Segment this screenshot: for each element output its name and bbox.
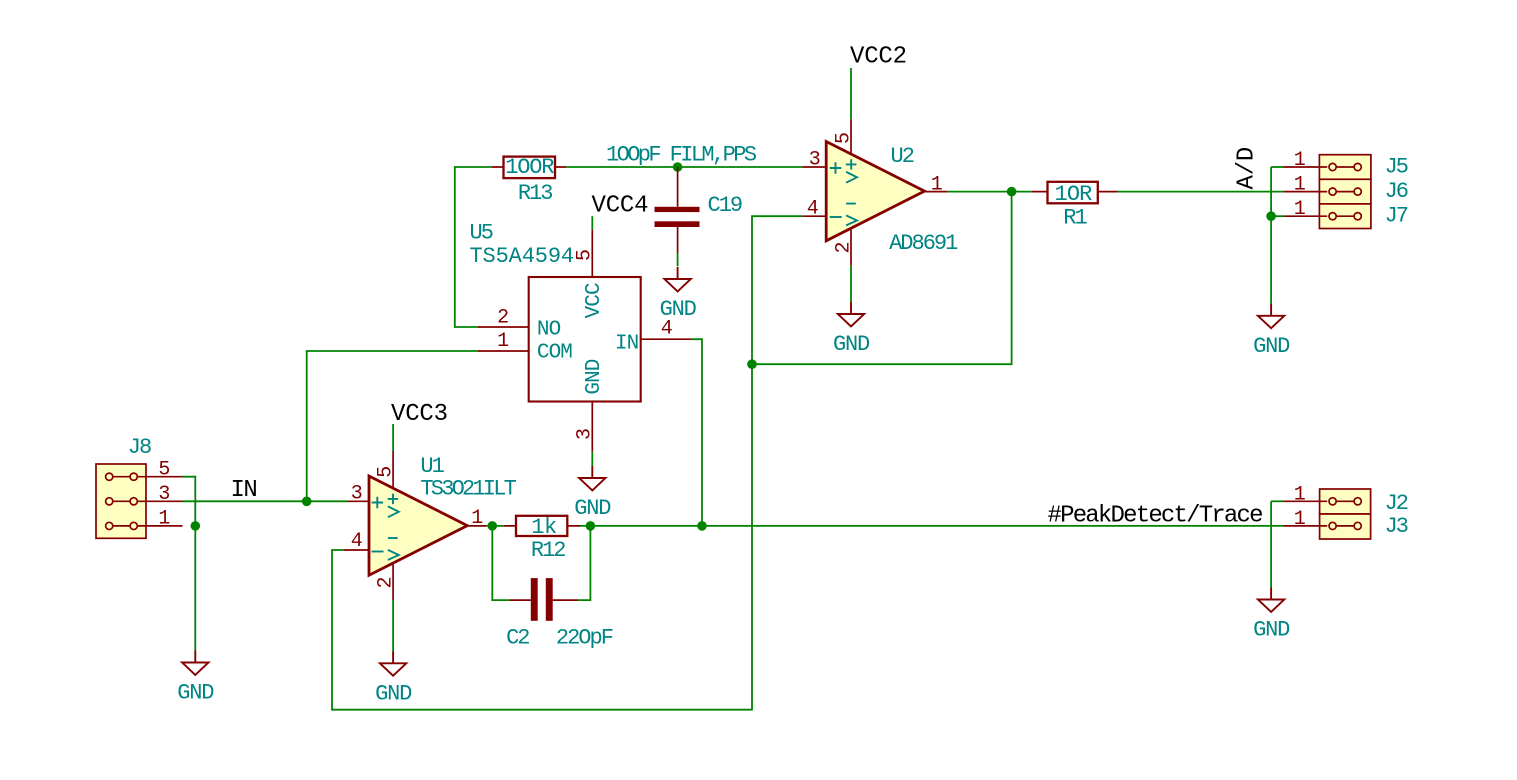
ground under J8 (182, 651, 208, 675)
resistor R12 (516, 516, 567, 536)
connector J3 (1320, 514, 1371, 539)
svg-text:1: 1 (1294, 483, 1306, 506)
J8 pin 1 circle pair (106, 522, 113, 529)
U2 pin stubs (802, 119, 947, 265)
U2 pin name minus (830, 216, 842, 218)
wire U5 NO to R13 left (455, 167, 492, 327)
svg-text:U1: U1 (420, 454, 444, 479)
svg-text:GND: GND (833, 332, 870, 357)
svg-text:3: 3 (809, 149, 820, 172)
svg-text:2: 2 (375, 578, 398, 589)
wire U5 GND pin to ground (591, 452, 593, 466)
wire to J7 pin (1271, 215, 1283, 217)
J8 pin stubs (137, 477, 182, 526)
R12 pin stubs (504, 525, 580, 527)
wire corner to J2 pin (1271, 500, 1283, 502)
U5 pin stubs (478, 230, 691, 452)
connector J8 (96, 464, 146, 538)
wire U2 output to R1 (947, 191, 1031, 193)
wire R12 right to J3 PeakDetect net (580, 525, 1284, 527)
analog switch U5 TS5A4594 (529, 277, 641, 402)
J8 pin 5 circle pair (106, 473, 113, 480)
junction U5 IN net (697, 521, 707, 531)
ground under J2 (1258, 588, 1284, 612)
svg-text:VCC3: VCC3 (391, 401, 448, 428)
svg-text:1: 1 (931, 174, 943, 197)
wire VCC4 to U5 VCC (591, 216, 593, 229)
wire U5 IN pin down to output net (691, 339, 702, 526)
connector J6 (1319, 179, 1371, 204)
svg-text:5: 5 (832, 133, 855, 144)
wire U2 output feedback down (752, 192, 1012, 365)
svg-text:4: 4 (807, 198, 818, 221)
wire feedback to U2 pin4 (752, 216, 802, 364)
svg-text:U2: U2 (891, 144, 914, 169)
U2 pin name V+ (846, 159, 857, 183)
capacitor C2 (531, 578, 538, 621)
svg-text:COM: COM (537, 342, 572, 365)
svg-text:C19: C19 (708, 193, 742, 218)
wire C2 right up to R12 right (578, 526, 590, 600)
C2 pin stubs (510, 599, 578, 601)
svg-text:NO: NO (537, 319, 561, 342)
U1 pin name V- (388, 538, 399, 560)
R13 pin stubs (492, 166, 566, 168)
wire VCC3 to U1 pin5 (392, 424, 394, 451)
ground under C19 (664, 267, 690, 291)
ground under J7 (1258, 304, 1284, 328)
wire VCC2 to U2 pin5 (850, 68, 852, 119)
wire corner to J5 pin (1271, 166, 1283, 168)
svg-text:GND: GND (177, 681, 214, 706)
svg-text:GND: GND (660, 297, 697, 322)
svg-text:3: 3 (158, 483, 169, 506)
U1 pin name plus (372, 497, 384, 509)
svg-text:GND: GND (1253, 334, 1290, 359)
svg-text:3: 3 (574, 429, 597, 440)
svg-text:J3: J3 (1385, 514, 1408, 539)
svg-text:1: 1 (497, 330, 509, 353)
junction row A C19 (673, 162, 683, 172)
U2 pin name plus (830, 162, 842, 174)
ground under U1 (380, 651, 406, 675)
svg-text:1OOpF FILM,PPS: 1OOpF FILM,PPS (606, 143, 757, 168)
op-amp U1 TS3021ILT (369, 476, 467, 575)
svg-text:5: 5 (574, 250, 597, 261)
C19 pin stubs (677, 167, 679, 253)
J5 J6 J7 pin stubs (1284, 167, 1328, 216)
U2 pin name V- (846, 204, 857, 226)
junction J7 gnd (1266, 211, 1276, 221)
capacitor C19 (655, 207, 700, 212)
ground under U2 (838, 302, 864, 326)
wire U2 pin2 to ground (850, 265, 852, 302)
svg-text:5: 5 (374, 467, 397, 478)
svg-text:J8: J8 (128, 435, 151, 460)
connector J2 (1320, 489, 1371, 514)
svg-text:1: 1 (1294, 149, 1306, 172)
svg-text:IN: IN (231, 477, 257, 504)
ground under U5 (579, 466, 605, 490)
wire C19 to ground (677, 253, 679, 266)
svg-text:IN: IN (615, 332, 638, 355)
connector J7 (1319, 204, 1371, 229)
svg-text:VCC: VCC (583, 283, 606, 318)
wire IN net J8 pin3 to U1 pin3 (183, 500, 348, 502)
svg-text:1: 1 (471, 507, 483, 530)
svg-text:3: 3 (351, 482, 362, 505)
wire U1 output to R12 (487, 525, 504, 527)
svg-text:1: 1 (1294, 508, 1306, 531)
svg-text:4: 4 (351, 530, 362, 553)
svg-text:AD8691: AD8691 (889, 231, 958, 256)
wire IN net up to U5 COM (307, 351, 478, 501)
svg-text:5: 5 (158, 459, 169, 482)
svg-text:1: 1 (158, 508, 170, 531)
svg-text:1OR: 1OR (1055, 182, 1093, 207)
svg-text:J7: J7 (1385, 204, 1408, 229)
wire J8 pin5 to GND net (183, 477, 196, 651)
resistor R13 (504, 157, 556, 179)
svg-text:GND: GND (375, 681, 412, 706)
svg-text:1: 1 (1294, 198, 1306, 221)
junction node IN (302, 497, 312, 507)
junction J8 pin1 gnd (191, 521, 201, 531)
connector J5 (1319, 155, 1371, 180)
svg-text:GND: GND (1253, 618, 1290, 643)
wire A-D connector vertical J5 J7 to ground (1270, 167, 1272, 304)
svg-text:R1: R1 (1063, 206, 1087, 231)
junction R12 right (586, 521, 596, 531)
svg-text:VCC2: VCC2 (850, 43, 907, 70)
svg-text:R13: R13 (518, 181, 552, 206)
svg-text:22OpF: 22OpF (556, 626, 613, 651)
svg-text:A/D: A/D (1234, 147, 1261, 190)
resistor R1 (1048, 182, 1098, 204)
wire feedback bottom loop to U1 pin4 (332, 364, 752, 710)
wire U1 output down to C2 left (492, 526, 509, 600)
U1 pin stubs (343, 451, 486, 600)
svg-text:VCC4: VCC4 (592, 193, 649, 220)
junction U2 output (1007, 187, 1017, 197)
svg-text:C2: C2 (506, 626, 529, 651)
svg-text:1OOR: 1OOR (505, 155, 554, 180)
svg-text:2: 2 (497, 307, 508, 330)
svg-text:GND: GND (583, 359, 606, 394)
svg-text:J2: J2 (1385, 491, 1408, 516)
R1 pin stubs (1031, 191, 1117, 193)
op-amp U2 AD8691 (826, 142, 924, 241)
svg-text:J6: J6 (1385, 179, 1408, 204)
svg-text:2: 2 (832, 243, 855, 254)
wire R13 right to U2 pin3 (566, 166, 802, 168)
junction feedback node (747, 359, 757, 369)
junction U1 output (488, 521, 498, 531)
svg-text:U5: U5 (470, 221, 493, 246)
svg-text:TS5A4594: TS5A4594 (470, 244, 574, 269)
wire U1 pin2 to ground (392, 600, 394, 651)
svg-text:#PeakDetect/Trace: #PeakDetect/Trace (1048, 503, 1263, 530)
J8 pin 3 circle pair (106, 498, 113, 505)
svg-text:J5: J5 (1385, 155, 1408, 180)
U1 pin name minus (372, 551, 384, 553)
U1 pin name V+ (388, 494, 399, 518)
svg-text:R12: R12 (531, 538, 565, 563)
svg-text:TS3O21ILT: TS3O21ILT (420, 477, 516, 502)
J2 J3 pin stubs (1284, 501, 1328, 526)
wire R1 to J6 A/D (1118, 191, 1284, 193)
svg-text:1k: 1k (531, 515, 557, 540)
svg-text:GND: GND (574, 496, 611, 521)
wire J2 down to ground (1270, 501, 1272, 587)
svg-text:1: 1 (1294, 174, 1306, 197)
